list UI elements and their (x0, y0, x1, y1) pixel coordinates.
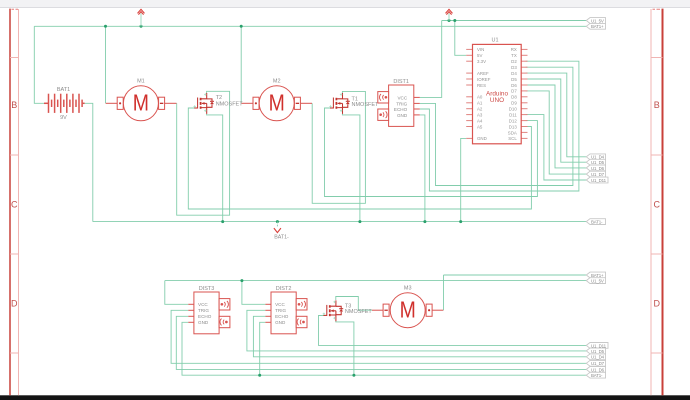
net flag U1_D11 middle (586, 177, 608, 183)
frame right outer line (662, 9, 664, 396)
svg-text:IOREF: IOREF (477, 77, 491, 82)
net flag BAT1+ top (586, 23, 605, 29)
svg-text:DIST2: DIST2 (276, 286, 292, 292)
junction ground T1 source (358, 220, 361, 223)
net flag U1_D5 bottom (586, 348, 605, 354)
wire DIST3 ECHO to flag U1_D6 (176, 316, 586, 369)
wire D4 to flag (526, 73, 587, 157)
svg-text:D2: D2 (511, 59, 517, 64)
svg-text:D7: D7 (511, 89, 517, 94)
svg-text:D11: D11 (509, 112, 517, 117)
wire DIST2 VCC riser (242, 281, 266, 305)
junction top rail M1 (104, 25, 107, 28)
svg-text:GND: GND (477, 136, 487, 141)
wire T1 source to ground (342, 114, 360, 222)
svg-text:DIST1: DIST1 (393, 79, 409, 85)
wire ground rail BAT1- (93, 221, 587, 223)
svg-text:B: B (11, 100, 17, 110)
svg-text:M1: M1 (137, 79, 145, 85)
wire T3 drain to M3 (336, 297, 372, 311)
svg-text:D10: D10 (509, 107, 518, 112)
svg-text:D: D (11, 299, 18, 309)
transistor T1 NMOSFET (329, 93, 379, 114)
frame left outer line (9, 9, 11, 396)
wire DIST2 GND to bottom rail (260, 322, 266, 375)
svg-text:B: B (654, 100, 660, 110)
svg-text:RES: RES (477, 83, 486, 88)
frame left row tick D end (10, 352, 19, 354)
supply arrow BAT1- down (274, 222, 289, 241)
svg-text:D6: D6 (511, 83, 517, 88)
junction ground U1 (459, 220, 462, 223)
supply arrow BAT1+ top (138, 9, 144, 26)
svg-text:TX: TX (511, 53, 517, 58)
wire T1 gate to D12 (325, 108, 538, 197)
net flag U1_5V top (586, 18, 605, 24)
svg-text:U1_D6: U1_D6 (591, 166, 605, 171)
wire DIST1 VCC to 5V rail (420, 21, 442, 98)
net flag U1_D7 bottom (586, 360, 605, 366)
svg-text:M2: M2 (273, 79, 281, 85)
svg-text:DIST3: DIST3 (199, 286, 215, 292)
svg-text:D8: D8 (511, 95, 517, 100)
svg-text:D: D (654, 299, 661, 309)
svg-text:NMOSFET: NMOSFET (216, 101, 244, 107)
svg-text:D12: D12 (509, 118, 518, 123)
svg-text:SDA: SDA (508, 130, 517, 135)
svg-text:NMOSFET: NMOSFET (352, 102, 380, 108)
svg-text:M: M (269, 90, 285, 116)
svg-text:VCC: VCC (198, 302, 208, 307)
svg-text:U1_D5: U1_D5 (591, 349, 605, 354)
wire D6 to flag (526, 85, 587, 168)
svg-text:BAT1+: BAT1+ (591, 24, 604, 29)
junction bottom rail DIST2 GND (258, 374, 261, 377)
svg-text:T2: T2 (216, 95, 222, 101)
svg-text:U1: U1 (491, 37, 498, 43)
svg-text:TRIG: TRIG (396, 101, 407, 106)
svg-text:ECHO: ECHO (394, 107, 408, 112)
wire D11 to flag (526, 115, 587, 180)
svg-text:D9: D9 (511, 101, 517, 106)
arduino U1 (466, 37, 527, 144)
svg-text:AREF: AREF (477, 71, 489, 76)
battery BAT1 (44, 87, 85, 121)
svg-text:D5: D5 (511, 77, 517, 82)
wire DIST1 TRIG to D3 (420, 67, 573, 185)
transistor T2 NMOSFET (194, 93, 244, 114)
junction bottom rail T3 source (352, 374, 355, 377)
junction ground DIST1 (423, 220, 426, 223)
svg-text:BAT1: BAT1 (57, 87, 70, 93)
svg-text:U1_5V: U1_5V (591, 279, 604, 284)
svg-text:UNO: UNO (490, 97, 504, 104)
svg-text:BAT1-: BAT1- (274, 235, 289, 241)
svg-text:ECHO: ECHO (275, 314, 289, 319)
svg-text:D4: D4 (511, 71, 517, 76)
ultrasonic sensor DIST1 (378, 79, 420, 126)
svg-text:M: M (400, 297, 416, 323)
wire M2 minus to T1 drain (312, 91, 365, 203)
motor M1 (106, 79, 177, 121)
junction top rail M2 (240, 25, 243, 28)
wire U1_5V rail top (442, 20, 587, 22)
svg-text:RX: RX (511, 47, 517, 52)
ultrasonic sensor DIST3 (188, 286, 230, 334)
wire U1 GND to ground rail (461, 138, 467, 221)
svg-text:U1_D7: U1_D7 (591, 172, 605, 177)
wire DIST2 TRIG to flag U1_D5 (247, 310, 586, 351)
wire M2 plus drop (240, 26, 242, 103)
motor M3 (372, 286, 443, 328)
svg-text:U1_D5: U1_D5 (591, 160, 605, 165)
net flag U1_D11 bottom (586, 343, 608, 349)
wire DIST3 VCC riser (165, 281, 189, 305)
frame left row tick A/B (10, 57, 19, 59)
svg-text:C: C (654, 200, 661, 210)
junction 5V rail DIST2 (240, 279, 243, 282)
svg-text:U1_5V: U1_5V (591, 18, 604, 23)
wire BAT1+ bottom rail (444, 274, 587, 276)
net flag U1_D6 bottom (586, 367, 605, 373)
wire DIST3 GND to bottom ground rail (182, 322, 586, 375)
svg-text:VCC: VCC (397, 95, 407, 100)
svg-text:A0: A0 (477, 95, 483, 100)
svg-text:A2: A2 (477, 107, 483, 112)
svg-text:NMOSFET: NMOSFET (345, 309, 373, 315)
frame right top dashed edge (653, 8, 661, 10)
svg-text:TRIG: TRIG (198, 308, 209, 313)
svg-text:SCL: SCL (508, 136, 517, 141)
net flag U1_D5 middle (586, 159, 605, 165)
wire BAT1+ top rail (34, 25, 586, 27)
svg-text:TRIG: TRIG (275, 308, 286, 313)
net flag U1_D7 middle (586, 171, 605, 177)
frame left row tick C/D (10, 253, 19, 255)
wire U1_5V bottom rail (165, 280, 587, 282)
net flag BAT1+ bottom (586, 272, 605, 278)
svg-text:BAT1-: BAT1- (591, 373, 603, 378)
top toolbar strip (0, 0, 690, 8)
ultrasonic sensor DIST2 (265, 286, 307, 334)
wire DIST1 ECHO to D2 (420, 61, 579, 191)
wire T2 source to ground (207, 114, 223, 222)
frame right row tick C/D (651, 253, 663, 255)
svg-text:A3: A3 (477, 112, 483, 117)
net flag U1_D4 bottom (586, 354, 605, 360)
net flag U1_D6 middle (586, 165, 605, 171)
net flag BAT1- bottom (586, 372, 605, 378)
frame right row tick B/C (651, 154, 663, 156)
net flag U1_D4 middle (586, 154, 605, 160)
svg-text:U1_D6: U1_D6 (591, 367, 605, 372)
svg-text:U1_D11: U1_D11 (591, 178, 607, 183)
svg-text:C: C (11, 200, 18, 210)
svg-text:M3: M3 (404, 286, 412, 292)
wire T2 gate to D13 (188, 108, 531, 209)
wire DIST1 GND to ground rail (420, 115, 425, 222)
wire DIST3 TRIG to flag U1_D7 (171, 310, 586, 363)
svg-text:A5: A5 (477, 124, 483, 129)
net flag U1_5V bottom (586, 278, 605, 284)
wire D5 to flag (526, 79, 587, 162)
svg-text:ECHO: ECHO (198, 314, 212, 319)
svg-text:GND: GND (198, 320, 209, 325)
svg-text:3.3V: 3.3V (477, 59, 486, 64)
wire T3 source to bottom rail (336, 321, 354, 375)
svg-text:A1: A1 (477, 101, 483, 106)
svg-text:VCC: VCC (275, 302, 285, 307)
transistor T3 NMOSFET (323, 300, 373, 321)
wire M1 minus to T2 drain (177, 91, 230, 215)
wire M3 plus to BAT1+ rail (443, 275, 445, 310)
frame right row tick A/B (651, 57, 663, 59)
svg-text:BAT1-: BAT1- (591, 220, 603, 225)
junction ground T2 source (221, 220, 224, 223)
svg-text:D13: D13 (509, 124, 518, 129)
svg-text:M: M (133, 90, 149, 116)
wire 5V branch to U1 pin (455, 21, 466, 56)
junction top rail arrow (140, 25, 143, 28)
svg-text:VIN: VIN (477, 47, 484, 52)
net flag BAT1- middle (586, 219, 605, 225)
svg-text:U1_D4: U1_D4 (591, 355, 605, 360)
junction 5V branch (453, 19, 456, 22)
svg-text:9V: 9V (60, 115, 67, 121)
frame left top dashed edge (12, 8, 19, 10)
wire DIST2 ECHO to flag U1_D4 (253, 316, 586, 357)
wire M1 plus drop (105, 26, 107, 103)
svg-text:D3: D3 (511, 65, 517, 70)
supply arrow U1_5V top (446, 9, 452, 20)
junction 5V arrow (448, 19, 451, 22)
wire battery plus drop (34, 26, 44, 103)
svg-text:U1_D7: U1_D7 (591, 361, 605, 366)
junction ground arrow (276, 220, 279, 223)
frame right inner line (650, 9, 652, 395)
motor M2 (241, 79, 312, 121)
svg-text:BAT1+: BAT1+ (591, 273, 604, 278)
svg-text:GND: GND (397, 113, 408, 118)
bottom black bar (0, 395, 690, 400)
frame left row tick B/C (10, 154, 19, 156)
svg-text:GND: GND (275, 320, 286, 325)
frame right row tick D end (651, 352, 663, 354)
wire battery minus to ground rail (85, 103, 93, 221)
svg-text:5V: 5V (477, 53, 482, 58)
frame left inner line (18, 9, 20, 395)
svg-text:A4: A4 (477, 118, 483, 123)
wire D7 to flag (526, 91, 587, 174)
wire T3 gate to flag U1_D11 (319, 316, 587, 346)
